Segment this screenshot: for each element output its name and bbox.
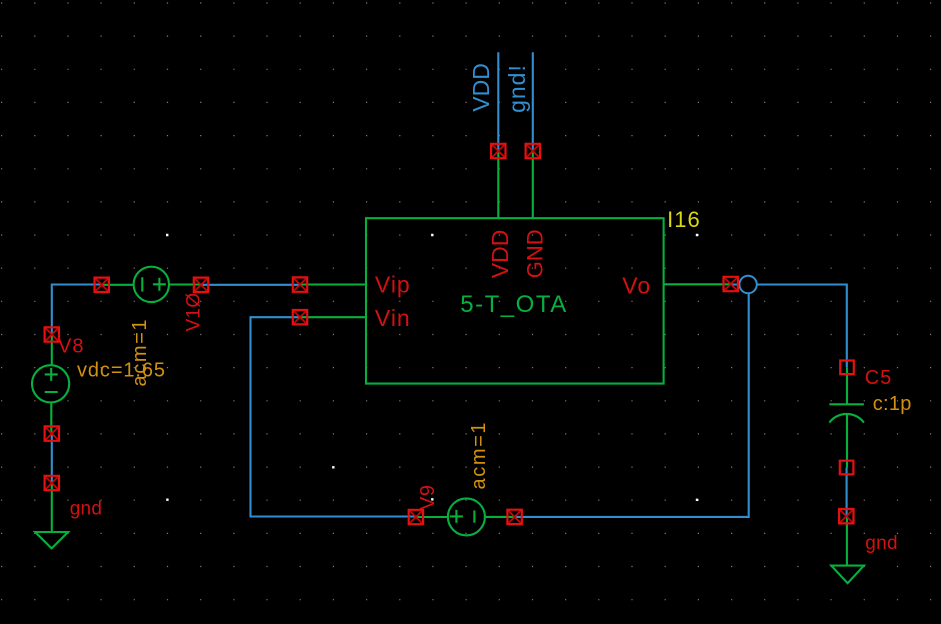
svg-text:Vin: Vin (375, 305, 411, 331)
svg-text:Vip: Vip (375, 272, 411, 298)
svg-text:I16: I16 (667, 207, 701, 232)
svg-text:VDD: VDD (468, 63, 494, 112)
svg-text:gnd: gnd (865, 533, 898, 554)
svg-text:acm=1: acm=1 (468, 421, 490, 490)
svg-text:C5: C5 (865, 367, 893, 389)
svg-text:V9: V9 (417, 485, 439, 510)
svg-text:V8: V8 (58, 335, 84, 357)
svg-text:gnd: gnd (70, 499, 103, 520)
svg-text:Vo: Vo (622, 273, 651, 299)
svg-text:acm=1: acm=1 (129, 318, 151, 387)
svg-text:V1Ø: V1Ø (184, 293, 205, 332)
svg-text:vdc=1.65: vdc=1.65 (77, 360, 166, 382)
svg-text:c:1p: c:1p (873, 393, 912, 415)
svg-text:5-T_OTA: 5-T_OTA (460, 291, 567, 318)
svg-text:GND: GND (522, 229, 547, 278)
svg-text:VDD: VDD (487, 230, 513, 279)
svg-text:gnd!: gnd! (504, 64, 530, 113)
